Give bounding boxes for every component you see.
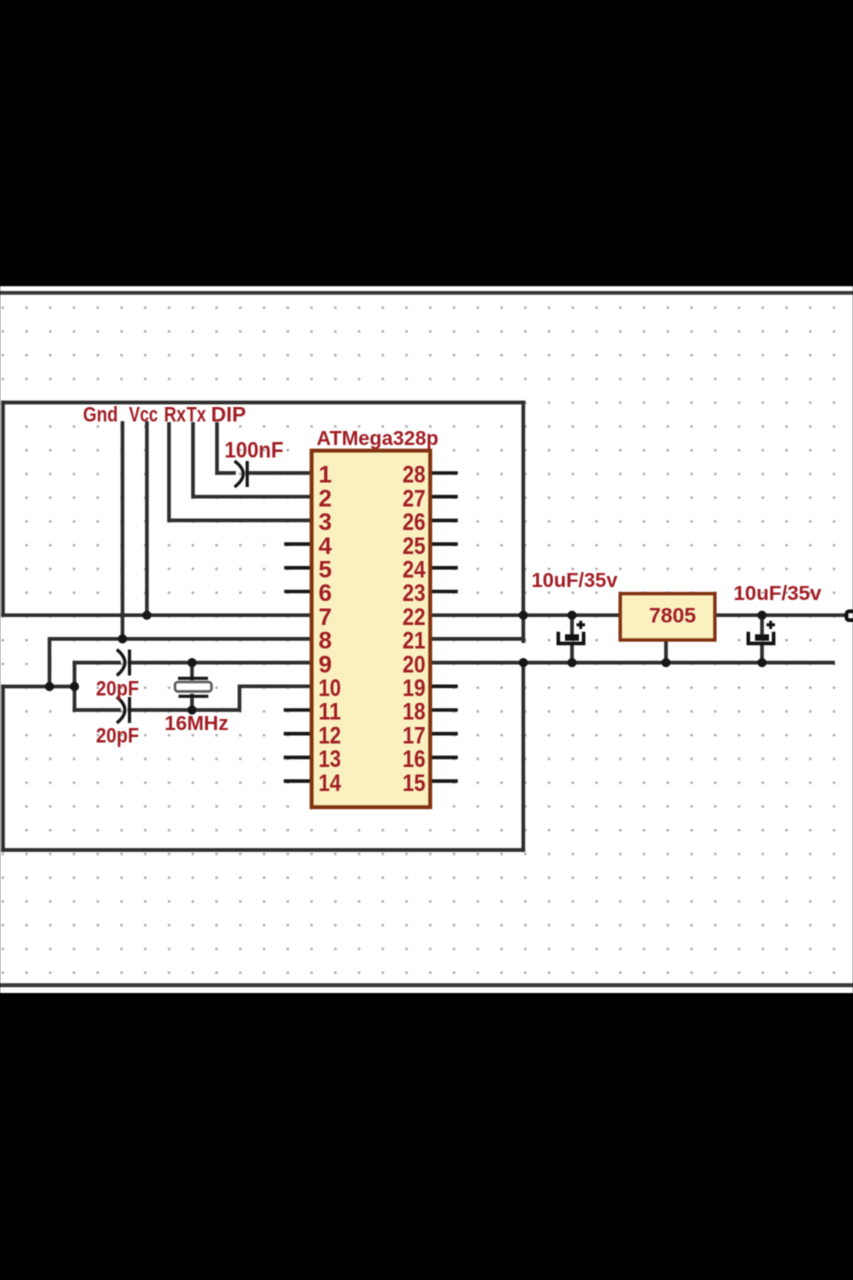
svg-text:10uF/35v: 10uF/35v <box>532 570 619 592</box>
pin 18 stub <box>431 708 456 712</box>
capacitor C1 100nF symbol <box>235 461 248 487</box>
junction C4 bottom <box>567 658 576 667</box>
wire net-GND bottom edge <box>3 848 523 852</box>
pin 11 stub <box>286 708 312 712</box>
wire crystal top right segment to pin9 <box>130 661 312 665</box>
svg-text:100nF: 100nF <box>225 438 284 463</box>
svg-text:DIP: DIP <box>211 403 246 427</box>
capacitor C2 20pF symbol <box>117 650 130 676</box>
grid dot field <box>0 296 853 982</box>
wire DIP label to C1 <box>217 424 234 473</box>
pin 26 stub <box>431 519 456 523</box>
wire U2 output to terminal <box>717 613 845 617</box>
pin 6 stub <box>286 590 311 594</box>
pin 23 stub <box>431 590 456 594</box>
junction right vertical / pin22 <box>519 611 528 620</box>
wire Gnd label vertical <box>121 423 125 639</box>
pin 25 stub <box>431 542 456 546</box>
pin 12 stub <box>286 732 312 736</box>
capacitor C4 10uF/35v symbol <box>558 621 585 644</box>
svg-text:ATMega328p: ATMega328p <box>317 428 439 450</box>
junction right vertical / pin20 <box>519 658 528 667</box>
IC U1 ATMega328p body <box>312 451 431 808</box>
pin 19 stub <box>431 684 456 688</box>
wire U2 ground lead <box>664 642 668 663</box>
wire net-VCC top edge <box>3 401 523 405</box>
wire C5 bottom lead <box>760 646 764 663</box>
svg-text:Tx: Tx <box>187 403 207 427</box>
junction Vcc/pin7 <box>142 611 151 620</box>
junction Y1 bottom <box>187 705 196 714</box>
schematic canvas <box>0 286 853 993</box>
svg-text:14: 14 <box>319 770 342 797</box>
wire crystal bottom to pin10 jog <box>130 686 312 710</box>
pin 24 stub <box>431 566 456 570</box>
pin 15 stub <box>431 779 456 783</box>
wire Tx label to pin2 <box>193 424 311 497</box>
junction Y1 top <box>187 658 196 667</box>
pin 28 stub <box>431 471 456 475</box>
terminal J1 output pad <box>847 611 853 620</box>
wire crystal bottom left segment <box>75 708 120 712</box>
crystal Y1 16MHz symbol <box>175 678 212 696</box>
pin 17 stub <box>431 732 456 736</box>
pin 5 stub <box>286 566 311 570</box>
wire C5 top lead <box>760 615 764 634</box>
junction Gnd/pin8 <box>118 634 127 643</box>
wire net-VCC pin7 horizontal <box>3 613 311 617</box>
capacitor C3 20pF symbol <box>117 697 130 723</box>
wire Vcc label vertical <box>145 423 149 615</box>
wire Y1 bottom lead <box>190 696 194 711</box>
wire pin20 long horizontal <box>431 661 833 665</box>
junction wireC/loop <box>70 682 79 691</box>
wire pin8 horizontal B <box>50 639 312 687</box>
junction U2 ground <box>661 658 670 667</box>
pin 16 stub <box>431 756 456 760</box>
wire net-VCC right vertical upper <box>521 403 525 642</box>
pin 27 stub <box>431 495 456 499</box>
svg-text:10uF/35v: 10uF/35v <box>734 583 823 605</box>
canvas bottom frame line <box>0 983 853 987</box>
junction C4 top <box>567 611 576 620</box>
wire net-GND horizontal C <box>3 685 75 689</box>
wire C4 top lead <box>570 615 574 634</box>
svg-text:Vcc: Vcc <box>129 403 158 427</box>
wire net-GND right vertical lower <box>521 663 525 850</box>
svg-text:16MHz: 16MHz <box>165 712 229 735</box>
wire crystal top left segment <box>75 661 120 665</box>
regulator U2 7805 body <box>620 594 715 640</box>
wire net-GND left lower vertical <box>1 687 5 851</box>
pin 4 stub <box>286 542 311 546</box>
wire pin21 to right vertical <box>431 637 523 641</box>
wire crystal loop left vertical <box>73 663 77 710</box>
wire pin22 to U2 <box>431 613 619 617</box>
wire C1 to pin1 <box>247 471 311 475</box>
junction wireB/wireC <box>45 682 54 691</box>
svg-text:Rx: Rx <box>164 403 186 427</box>
junction C5 bottom <box>757 658 766 667</box>
canvas top frame line <box>0 291 853 295</box>
wire Rx label to pin3 <box>169 424 311 520</box>
svg-text:Gnd: Gnd <box>83 403 118 427</box>
wire C4 bottom lead <box>570 646 574 663</box>
pin 14 stub <box>286 779 312 783</box>
pin 13 stub <box>286 756 312 760</box>
wire Y1 top lead <box>190 663 194 679</box>
svg-text:20pF: 20pF <box>96 678 139 701</box>
junction C5 top <box>757 611 766 620</box>
svg-text:7805: 7805 <box>649 605 696 628</box>
svg-text:15: 15 <box>403 770 426 797</box>
wire net-VCC left upper vertical <box>1 403 5 616</box>
svg-text:20pF: 20pF <box>96 725 139 748</box>
capacitor C5 10uF/35v symbol <box>748 621 775 644</box>
